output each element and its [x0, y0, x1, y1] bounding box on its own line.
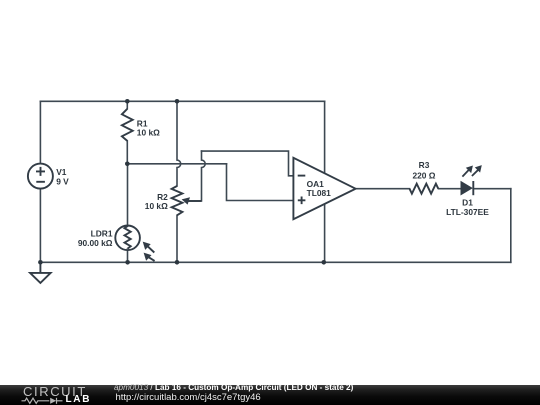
wire node A horizontal (R1/LDR1 junction to op-amp): [127, 163, 226, 165]
resistor R3: [410, 184, 439, 194]
wire node A drop to + input: [227, 164, 294, 201]
footer title line: [114, 384, 353, 392]
node R2 ground: [175, 260, 180, 265]
wire R2 top lead with hop over node-A wire: [177, 101, 181, 186]
wire top rail V1+ to op-amp V+: [40, 100, 324, 102]
wire op-amp output to R3: [356, 188, 410, 190]
svg-text:9 V: 9 V: [56, 176, 69, 186]
ground: [30, 262, 50, 283]
CircuitLab logo text: [23, 386, 87, 397]
wire D1 cathode to right drop: [473, 188, 511, 190]
svg-text:10 kΩ: 10 kΩ: [137, 127, 160, 137]
footer bar: [0, 385, 540, 405]
node op-amp V- ground: [322, 260, 327, 265]
label R2 value: [145, 192, 168, 211]
label V1 value: [56, 167, 69, 186]
wire V1 bottom lead: [39, 189, 41, 263]
wire bottom ground rail: [40, 261, 510, 263]
LED D1: [461, 170, 478, 195]
potentiometer R2: [172, 186, 202, 215]
node ground left: [38, 260, 43, 265]
node R2 top rail: [175, 99, 180, 104]
wire R1 bottom lead: [126, 141, 128, 164]
svg-text:10 kΩ: 10 kΩ: [145, 201, 168, 211]
svg-text:LTL-307EE: LTL-307EE: [446, 207, 489, 217]
node A junction: [125, 162, 130, 167]
wire op-amp V- supply lead: [324, 204, 326, 262]
wire wiper top run to - input: [202, 151, 294, 176]
svg-text:R3: R3: [419, 160, 430, 170]
R2 wiper arrowhead: [182, 197, 190, 204]
wire R2 wiper to vertical riser with hop: [187, 151, 206, 201]
op-amp OA1: [293, 158, 355, 219]
wire LDR1 leads (node A down to ground rail): [127, 164, 129, 262]
svg-text:220 Ω: 220 Ω: [412, 170, 435, 180]
footer url line: [116, 394, 261, 402]
wire R1 top lead: [126, 101, 128, 108]
CircuitLab logo symbol (resistor + diode): [18, 395, 68, 405]
wire R2 bottom lead: [176, 215, 178, 262]
photoresistor LDR1: [115, 226, 154, 261]
label OA1 TL081: [307, 179, 332, 198]
label D1 value: [446, 198, 489, 217]
label R3 value: [412, 160, 435, 180]
label LDR1 value: [78, 229, 113, 248]
wire op-amp V+ supply lead: [324, 101, 326, 173]
wire R3 to D1 anode: [439, 188, 462, 190]
node junction dots: [38, 99, 326, 265]
node R1 top rail: [125, 99, 130, 104]
wire V1 top lead: [39, 101, 41, 163]
LDR1 light arrows heads: [143, 242, 151, 250]
node LDR1 ground: [125, 260, 130, 265]
label R1 value: [137, 118, 160, 137]
svg-text:TL081: TL081: [307, 188, 332, 198]
svg-text:90.00 kΩ: 90.00 kΩ: [78, 238, 113, 248]
resistor R1: [122, 109, 133, 141]
D1 light emission arrow heads: [466, 166, 473, 174]
wire right side drop to ground rail: [510, 189, 512, 263]
voltage source V1: [28, 164, 53, 189]
